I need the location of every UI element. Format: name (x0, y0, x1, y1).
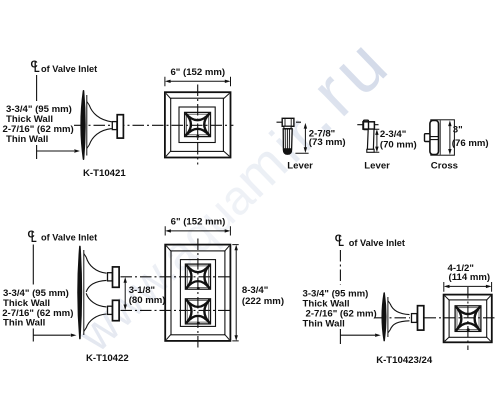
cross left nub (425, 134, 430, 142)
lower handle square (185, 299, 210, 324)
lever 1 cap (282, 118, 294, 126)
cross hub band (430, 137, 439, 140)
svg-text:Lever: Lever (364, 161, 390, 172)
set screw dot (196, 135, 199, 138)
svg-text:C: C (31, 60, 38, 71)
pad square (179, 107, 215, 143)
svg-text:Lever: Lever (287, 160, 313, 171)
upper handle square (185, 264, 210, 289)
handle square front (185, 112, 211, 136)
upper trumpet (86, 257, 106, 292)
valve stem nub (112, 122, 117, 130)
escutcheon side view (382, 293, 409, 341)
cross handle back plate (431, 120, 455, 155)
vertical centerline front view (467, 287, 469, 350)
reference line lower tick (339, 329, 341, 344)
lever 2 dimension (374, 129, 379, 152)
svg-text:3": 3" (453, 125, 463, 136)
svg-text:Thin Wall: Thin Wall (6, 134, 48, 145)
handle square front (455, 306, 481, 332)
set screw dot (467, 328, 470, 331)
horizontal centerlines to front view (121, 277, 233, 311)
cross dimension (449, 123, 451, 152)
centerline symbol CL (31, 60, 40, 72)
bevel corner diagonals (166, 246, 229, 340)
bevel square (449, 300, 487, 337)
svg-text:C: C (28, 230, 35, 241)
lever 1 dim text (309, 129, 346, 148)
svg-text:(222 mm): (222 mm) (242, 296, 284, 307)
svg-text:8-3/4": 8-3/4" (242, 285, 268, 296)
pad rectangle (180, 260, 215, 327)
wall depth text block (303, 288, 377, 329)
svg-text:(80 mm): (80 mm) (129, 295, 166, 306)
bevel rectangle (171, 251, 225, 335)
vertical centerline front view (197, 85, 199, 165)
svg-text:(73 mm): (73 mm) (309, 137, 346, 148)
svg-text:Cross: Cross (431, 160, 458, 171)
dimension arrow to wall (37, 150, 74, 152)
reference line lower tick (36, 145, 38, 159)
svg-text:Thin Wall: Thin Wall (3, 317, 45, 328)
svg-text:C: C (335, 234, 342, 245)
lever 2 arm line (357, 124, 378, 126)
svg-text:(70 mm): (70 mm) (380, 139, 417, 150)
svg-text:of Valve Inlet: of Valve Inlet (41, 232, 97, 242)
valve inlet dashed reference line (339, 250, 341, 285)
dimension arrow to wall (33, 334, 70, 336)
cross hub (430, 120, 439, 154)
right dimension 8-3/4 (232, 245, 238, 341)
lever 2 tab (364, 120, 369, 129)
svg-text:6" (152 mm): 6" (152 mm) (171, 217, 226, 228)
vertical centerline front view (197, 239, 199, 349)
lever 2 arm (363, 122, 374, 129)
valve inlet vertical reference line (36, 75, 38, 101)
escutcheon side view (81, 91, 112, 159)
lower stem nub (108, 306, 113, 314)
svg-text:K-T10423/24: K-T10423/24 (376, 355, 433, 366)
svg-text:of Valve Inlet: of Valve Inlet (349, 238, 405, 248)
handle (edge view) (117, 115, 123, 138)
lever 1 centerline (277, 121, 302, 123)
reference line lower tick (32, 329, 34, 342)
cross dim text (452, 125, 489, 149)
upper stem nub (108, 273, 113, 281)
wall depth text block (3, 104, 74, 145)
valve inlet vertical reference line (32, 245, 34, 285)
lower trumpet (86, 293, 106, 328)
wall depth text block (2, 288, 73, 328)
svg-text:K-T10422: K-T10422 (86, 353, 129, 364)
svg-text:(76 mm): (76 mm) (452, 138, 489, 149)
horizontal centerline through valve (74, 124, 233, 126)
lever 1 neck (284, 126, 291, 128)
svg-text:of Valve Inlet: of Valve Inlet (41, 64, 97, 74)
dimension line (165, 77, 231, 86)
valve stem nub (412, 314, 417, 323)
handle X pattern (456, 307, 480, 331)
svg-text:(114 mm): (114 mm) (449, 272, 491, 283)
outer square (165, 92, 231, 157)
centerline symbol CL (335, 234, 344, 246)
lever 2 dim text (380, 129, 417, 150)
lower handle (113, 300, 120, 320)
svg-text:6" (152 mm): 6" (152 mm) (170, 67, 225, 78)
svg-text:Thin Wall: Thin Wall (303, 318, 345, 329)
horizontal centerline (375, 317, 497, 319)
spacing dimension 3-1/8 (124, 280, 126, 308)
svg-text:K-T10421: K-T10421 (83, 168, 126, 179)
outer rectangle (165, 245, 230, 341)
escutcheon side view (two valves) (78, 246, 106, 338)
lever 2 body (367, 129, 374, 149)
bevel corner diagonals (445, 296, 491, 342)
dimension arrow to wall (340, 334, 375, 336)
lever 1 body (283, 129, 292, 154)
handle (edge view) (418, 306, 424, 330)
centerline symbol CL (28, 230, 37, 242)
bevel square (171, 98, 224, 151)
bevel corner diagonals (166, 93, 229, 156)
front view 4.5in plate (448, 263, 491, 283)
handle X pattern (185, 113, 209, 136)
upper handle (113, 267, 120, 287)
lever 1 dimension (295, 126, 308, 154)
lever 1 base (283, 148, 291, 154)
outer square (444, 295, 492, 343)
